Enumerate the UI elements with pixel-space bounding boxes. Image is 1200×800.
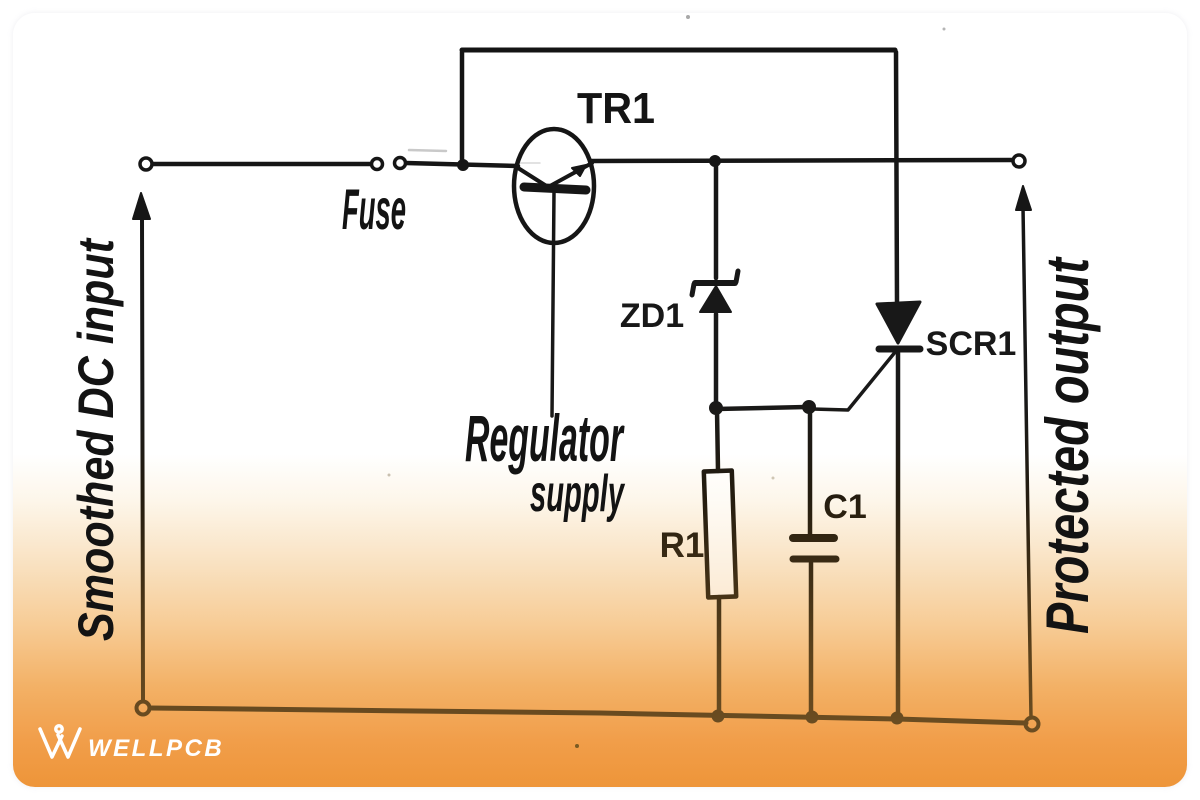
node: junction R1 bottom [712,710,724,722]
svg-text:ZD1: ZD1 [620,297,684,335]
thyristor SCR1 [877,302,920,349]
terminal: bottom right [1026,718,1039,731]
wire: SCR gate [812,351,896,410]
arrow: protected output [1016,186,1031,718]
svg-text:Regulator: Regulator [465,401,625,475]
svg-text:R1: R1 [660,526,705,565]
resistor R1 [704,471,736,598]
svg-text:SCR1: SCR1 [926,325,1017,363]
wire: SCR column vertical [896,52,898,717]
wire: C1 leads [810,409,811,715]
svg-text:C1: C1 [823,488,866,526]
wire: TR1 to output terminal [592,160,1013,161]
terminal: input left [140,158,152,170]
wire: fuse right side to TR1 junction [406,163,518,166]
label Fuse [342,178,406,242]
svg-text:supply: supply [530,466,626,523]
svg-text:Fuse: Fuse [342,178,406,242]
wire: top loop horizontal [462,48,895,53]
transistor TR1 [514,129,594,243]
wire: regulator supply line [552,192,554,416]
arrow: smoothed DC input [133,193,150,700]
terminal: bottom left [137,702,150,715]
speck marks (scan dust) [575,744,579,748]
wire: faint scan mark near fuse [409,150,446,151]
svg-text:Protected output: Protected output [1034,256,1101,634]
node: junction C1 bottom [806,711,818,723]
zener diode ZD1 [692,271,738,312]
svg-text:Smoothed DC input: Smoothed DC input [68,237,124,641]
node: junction TR1 top loop [458,160,469,171]
wire: input line from left terminal to fuse [152,162,371,167]
label Regulator supply [465,401,625,475]
wire: top loop left vertical [460,52,465,162]
terminal: output top [1013,155,1025,167]
node: junction C1/gate [803,401,816,414]
wire: ZD1 column lower [714,314,719,406]
capacitor C1 [793,538,836,559]
wire: bottom return [150,708,1026,723]
terminal: fuse right [395,158,406,169]
node: junction ZD1/R1 [710,402,723,415]
terminal: fuse left [372,159,383,170]
logo WELLPCB [40,726,80,757]
wire: node row ZD1 to C1 [716,407,806,409]
svg-text:TR1: TR1 [577,84,655,133]
node: junction SCR bottom [891,712,903,724]
wire: ZD1 column upper [714,162,719,278]
svg-text:WELLPCB: WELLPCB [88,735,224,762]
wire: R1 leads [717,410,719,714]
node: junction ZD1 top [710,156,721,167]
